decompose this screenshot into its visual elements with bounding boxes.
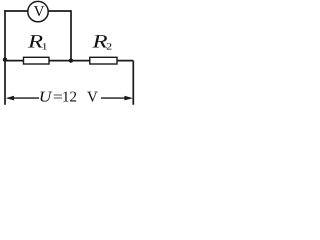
- resistor R1 body: [24, 57, 50, 64]
- node junction dot middle: [69, 58, 73, 62]
- svg-text:R2: R2: [91, 31, 112, 52]
- wire: top horizontal from left corner to right corner: [4, 10, 71, 12]
- wire: left vertical side: [4, 10, 6, 105]
- arrow left of U label: [12, 97, 39, 99]
- svg-text:R1: R1: [27, 31, 48, 52]
- svg-text:12: 12: [62, 90, 77, 106]
- svg-text:V: V: [34, 4, 45, 20]
- svg-text:U: U: [39, 90, 53, 106]
- wire: middle horizontal through R1 and R2: [5, 60, 133, 62]
- wire: right vertical side: [132, 61, 134, 105]
- svg-text:V: V: [87, 90, 98, 106]
- voltmeter U1 circle: [28, 1, 48, 21]
- wire: vertical from voltmeter right side down to node between R1 and R2: [70, 10, 72, 61]
- resistor R2 body: [90, 57, 117, 64]
- arrow right of U label: [101, 97, 127, 99]
- node junction dot left: [3, 58, 7, 62]
